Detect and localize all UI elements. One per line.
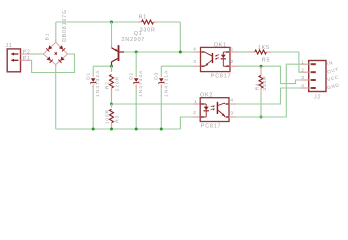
svg-text:2: 2 xyxy=(231,59,234,65)
svg-text:PC817: PC817 xyxy=(211,74,231,80)
svg-text:D3: D3 xyxy=(153,72,159,80)
svg-text:100R: 100R xyxy=(104,109,110,124)
svg-text:R4: R4 xyxy=(254,83,260,91)
svg-text:DB08107G: DB08107G xyxy=(62,9,68,42)
svg-text:J1: J1 xyxy=(6,43,13,49)
svg-text:220R: 220R xyxy=(114,76,120,91)
svg-text:1: 1 xyxy=(301,59,304,65)
svg-text:R2: R2 xyxy=(104,81,110,89)
svg-text:3: 3 xyxy=(230,110,233,116)
svg-text:OUT: OUT xyxy=(327,67,340,75)
svg-text:1N4744A: 1N4744A xyxy=(138,70,144,97)
svg-text:4: 4 xyxy=(230,98,233,104)
svg-text:OK1: OK1 xyxy=(214,42,227,48)
svg-text:J2: J2 xyxy=(314,95,321,101)
svg-text:VCC: VCC xyxy=(327,74,340,82)
svg-text:OK2: OK2 xyxy=(200,93,213,99)
svg-text:D2: D2 xyxy=(128,72,134,80)
svg-text:R3: R3 xyxy=(115,115,121,123)
svg-text:R1: R1 xyxy=(139,15,148,21)
svg-text:B1: B1 xyxy=(45,33,51,41)
svg-text:2: 2 xyxy=(301,67,304,73)
svg-text:4: 4 xyxy=(193,47,196,53)
svg-text:330R: 330R xyxy=(262,75,268,90)
svg-text:P2: P2 xyxy=(23,49,31,55)
svg-text:PC817: PC817 xyxy=(201,123,221,129)
svg-text:3: 3 xyxy=(193,59,196,65)
svg-text:3: 3 xyxy=(301,75,304,81)
svg-text:1N4731A: 1N4731A xyxy=(163,70,169,97)
svg-text:2N2907: 2N2907 xyxy=(122,37,146,43)
svg-text:P1: P1 xyxy=(23,56,31,62)
svg-text:Q1: Q1 xyxy=(134,31,143,37)
svg-text:1K5: 1K5 xyxy=(258,45,270,51)
svg-text:2: 2 xyxy=(193,110,196,116)
svg-text:1N4732A: 1N4732A xyxy=(95,70,101,97)
svg-text:1: 1 xyxy=(194,99,197,105)
svg-text:4: 4 xyxy=(301,83,304,89)
svg-text:D1: D1 xyxy=(85,72,91,80)
svg-text:R5: R5 xyxy=(262,57,271,63)
svg-text:IN: IN xyxy=(327,60,334,66)
svg-text:GND: GND xyxy=(327,82,340,90)
